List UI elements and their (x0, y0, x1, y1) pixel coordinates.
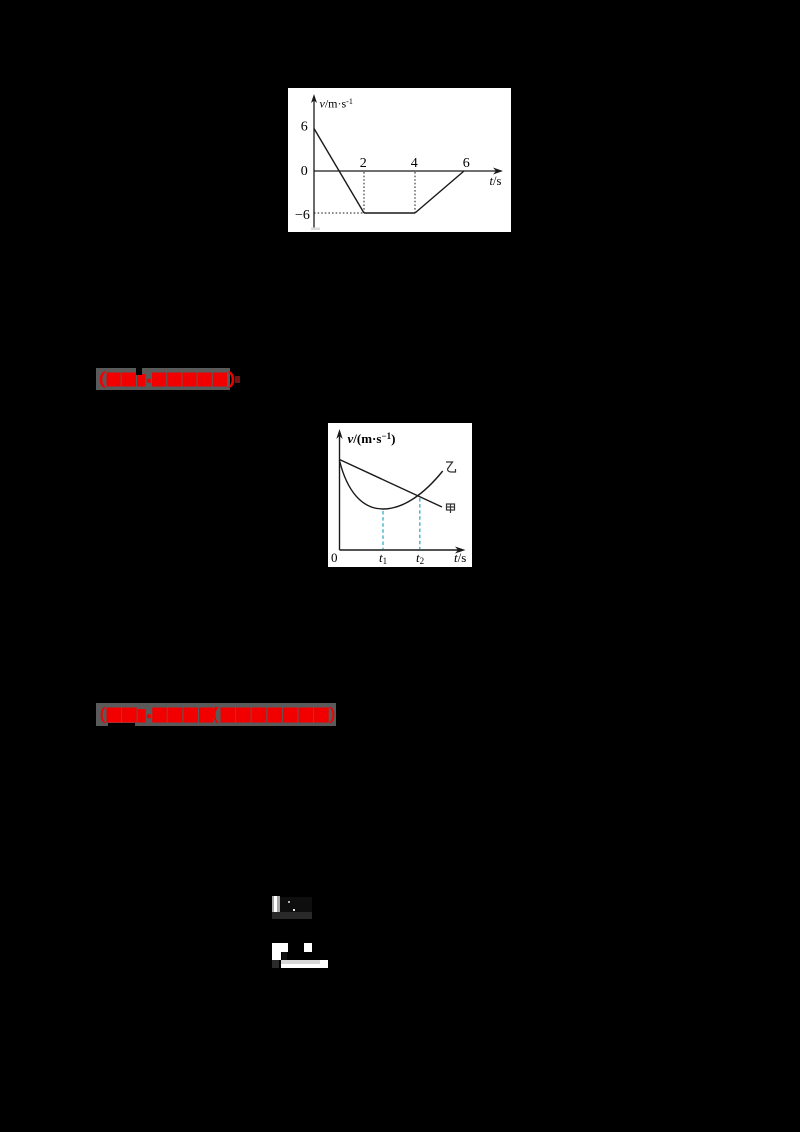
svg-text:−6: −6 (295, 208, 310, 223)
svg-text:0: 0 (331, 550, 338, 565)
svg-text:4: 4 (411, 156, 418, 171)
dashed vertical at t=2 (363, 172, 365, 213)
graph figure 2 (two-curve v-t graph) white panel (328, 423, 472, 567)
y-axis (339, 435, 341, 550)
svg-text:0: 0 (301, 164, 308, 179)
formula patch 1 white speck a (293, 909, 295, 911)
small gray tick bottom of y-axis (311, 228, 320, 231)
formula patch 2 white square B (304, 943, 312, 952)
x-axis arrowhead (455, 547, 466, 554)
cyan dashed vertical at t1 (382, 511, 384, 549)
line jia (straight descending) (340, 460, 443, 508)
label yi (CJK glyph drawn) (446, 462, 456, 472)
formula patch 2 white block right (320, 960, 328, 968)
black notch in heading 2 (108, 723, 135, 727)
svg-text:6: 6 (463, 156, 470, 171)
formula patch 1 gray band (272, 912, 312, 919)
x-axis (340, 549, 460, 551)
dashed vertical at t=4 (414, 172, 416, 213)
formula patch 1 white speck b (288, 901, 290, 903)
y-axis (313, 100, 315, 228)
svg-text:2: 2 (360, 156, 367, 171)
svg-text:t1: t1 (379, 550, 387, 566)
formula patch 1 white bar (274, 896, 277, 916)
formula patch 2 white band (281, 964, 328, 968)
x-axis (314, 170, 497, 172)
formula patch 2 white square A (272, 943, 288, 960)
svg-text:6: 6 (301, 120, 308, 135)
cyan dashed vertical at t2 (419, 498, 421, 549)
formula patch 2 dark smudge (272, 960, 279, 968)
v-t line segment 1 (6 to -6) (314, 129, 364, 214)
x-axis arrowhead (493, 168, 503, 175)
formula patch 1 dark glyph area (280, 897, 312, 912)
svg-text:t2: t2 (416, 550, 424, 566)
svg-text:t/s: t/s (490, 174, 502, 188)
dashed horizontal at v=-6 (314, 212, 364, 214)
formula patch 2 light band (281, 960, 320, 965)
formula patch 2 glyph bars (282, 952, 287, 962)
v-t line segment 2 (flat at -6) (364, 212, 415, 214)
red heading 2 on gray highlight (96, 703, 336, 726)
svg-text:v/(m·s−1): v/(m·s−1) (348, 431, 396, 446)
y-axis arrowhead (336, 429, 342, 439)
black notch in heading 1 (136, 368, 142, 375)
red heading 1 text blocks (99, 371, 241, 389)
formula patch 2 notch in square A (281, 952, 288, 960)
curve yi (dips then rises) (340, 461, 443, 510)
red heading 2 text blocks (99, 706, 335, 725)
red heading 1 on gray highlight (96, 368, 230, 390)
v-t line segment 3 (-6 to 0) (415, 171, 464, 213)
graph figure 1 (v-t trapezoid graph) white panel (288, 88, 511, 232)
svg-text:t/s: t/s (454, 550, 466, 565)
formula patch 1 light column (272, 896, 280, 913)
svg-text:v/m·s-1: v/m·s-1 (320, 97, 353, 111)
y-axis arrowhead (311, 94, 317, 103)
label jia (CJK glyph drawn) (447, 504, 455, 513)
